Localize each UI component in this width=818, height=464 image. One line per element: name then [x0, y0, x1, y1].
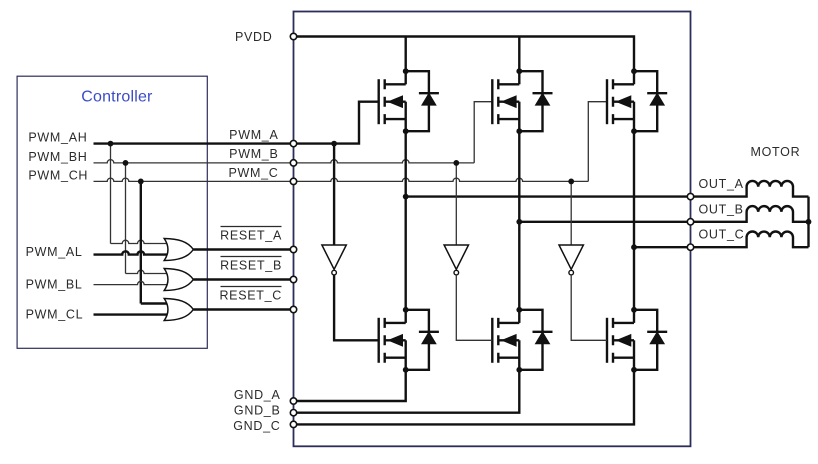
terminal OUT_A: [687, 193, 693, 199]
terminal PWM_A: [290, 140, 296, 146]
junction PWM_B node: [453, 160, 459, 166]
label PWM_A: [229, 128, 278, 142]
svg-text:OUT_B: OUT_B: [699, 202, 744, 216]
wire PWM_AH to PWM_A and gate riser Q1: [94, 102, 379, 144]
svg-text:RESET_A: RESET_A: [220, 229, 282, 243]
nmos Q1 high-side A with body diode: [379, 71, 439, 131]
wire motor star point: [807, 197, 809, 248]
svg-text:OUT_A: OUT_A: [699, 177, 744, 191]
terminal GND_B: [290, 410, 296, 416]
junction Q4 drain: [403, 307, 409, 313]
junction Q6 source: [631, 367, 637, 373]
label PWM_AH: [28, 131, 87, 145]
label GND_A: [234, 388, 281, 402]
junction Q1 drain: [403, 68, 409, 74]
svg-text:GND_C: GND_C: [233, 419, 280, 433]
label OUT_C: [699, 228, 745, 242]
terminal GND_C: [290, 421, 296, 427]
wire PWM_CH to PWM_C and gate riser Q3: [94, 102, 608, 182]
wire PWM_BH to PWM_B and gate riser Q2: [94, 102, 493, 163]
junction Q3 source: [631, 128, 637, 134]
driver IC box: [294, 12, 691, 447]
junction Q5 drain: [516, 307, 522, 313]
junction Q3 drain: [631, 68, 637, 74]
label Controller: [81, 89, 153, 106]
junction PWM_A node: [331, 141, 337, 147]
junction Q2 source: [516, 128, 522, 134]
junction OUT_A node: [403, 194, 409, 200]
terminal OUT_B: [687, 219, 693, 225]
svg-text:PWM_BH: PWM_BH: [28, 150, 87, 164]
wire GND_A to Q4 source: [294, 370, 406, 401]
wire PWM_BL to OR2 bottom input: [94, 281, 169, 284]
terminal PVDD: [290, 33, 296, 39]
label PVDD: [235, 30, 273, 44]
junction PWM_AH tap: [108, 141, 114, 147]
label PWM_BL: [26, 278, 83, 292]
junction motor star point: [806, 219, 812, 225]
inverter B: [444, 245, 468, 275]
svg-text:GND_A: GND_A: [234, 388, 281, 402]
svg-text:PWM_BL: PWM_BL: [26, 278, 83, 292]
svg-text:PWM_C: PWM_C: [228, 166, 278, 180]
terminal GND_A: [290, 398, 296, 404]
nmos Q6 low-side C with body diode: [607, 310, 667, 370]
label GND_B: [234, 403, 281, 417]
svg-text:PWM_CL: PWM_CL: [26, 308, 84, 322]
svg-text:PWM_B: PWM_B: [229, 147, 278, 161]
label PWM_C: [228, 166, 278, 180]
junction PWM_CH tap: [138, 179, 144, 185]
label RESET_B with overline: [220, 257, 282, 273]
junction Q2 drain: [516, 68, 522, 74]
motor winding C: [691, 231, 809, 247]
terminal RESET_B: [290, 276, 296, 282]
wire PWM_CH tap down to OR3 top input: [141, 181, 169, 303]
or-gate B: [164, 269, 193, 291]
wire OR3 output to RESET_C terminal: [193, 308, 293, 310]
label PWM_B: [229, 147, 278, 161]
svg-text:PWM_CH: PWM_CH: [28, 168, 88, 182]
label PWM_CL: [26, 308, 84, 322]
wire inverter B input from PWM_B: [455, 163, 457, 245]
svg-text:RESET_C: RESET_C: [219, 289, 282, 303]
wire OUT_C line: [634, 246, 691, 248]
svg-text:PWM_AH: PWM_AH: [28, 131, 87, 145]
junction Q6 drain: [631, 307, 637, 313]
junction Q4 source: [403, 367, 409, 373]
wire PVDD drop to Q1 drain: [405, 37, 407, 72]
label PWM_BH: [28, 150, 87, 164]
label MOTOR: [751, 145, 801, 159]
wire inverter B output to Q5 gate: [456, 275, 492, 340]
terminal RESET_A: [290, 246, 296, 252]
wire PWM_AH tap down to OR1 top input: [111, 144, 169, 244]
or-gate A: [164, 239, 193, 261]
wire inverter A output to Q4 gate: [334, 275, 379, 340]
junction OUT_C node: [631, 244, 637, 250]
inverter A: [322, 245, 346, 275]
wire PVDD drop to Q2 drain: [518, 37, 520, 72]
or-gate C: [164, 299, 193, 321]
nmos Q5 low-side B with body diode: [492, 310, 552, 370]
junction Q1 source: [403, 128, 409, 134]
nmos Q2 high-side B with body diode: [492, 71, 552, 131]
wire inverter C output to Q6 gate: [571, 275, 607, 340]
motor winding A: [691, 181, 809, 197]
nmos Q3 high-side C with body diode: [607, 71, 667, 131]
svg-text:PVDD: PVDD: [235, 30, 273, 44]
svg-text:GND_B: GND_B: [234, 403, 281, 417]
wire OR1 output to RESET_A terminal: [193, 248, 293, 250]
wire inverter A input from PWM_A: [333, 144, 335, 245]
label RESET_C with overline: [219, 287, 282, 303]
svg-text:OUT_C: OUT_C: [699, 228, 745, 242]
svg-text:PWM_AL: PWM_AL: [26, 245, 83, 259]
svg-text:RESET_B: RESET_B: [220, 259, 282, 273]
wire OUT_B line: [519, 221, 690, 223]
wire PWM_CL to OR3 bottom input: [94, 313, 169, 315]
label OUT_B: [699, 202, 744, 216]
svg-text:PWM_A: PWM_A: [229, 128, 278, 142]
label PWM_AL: [26, 245, 83, 259]
wire GND_B to Q5 source: [294, 370, 520, 413]
label RESET_A with overline: [220, 227, 282, 243]
label OUT_A: [699, 177, 744, 191]
terminal RESET_C: [290, 306, 296, 312]
junction OUT_B node: [516, 219, 522, 225]
nmos Q4 low-side A with body diode: [379, 310, 439, 370]
wire PVDD rail: [294, 37, 635, 72]
inverter C: [559, 245, 583, 275]
label GND_C: [233, 419, 280, 433]
junction PWM_C node: [568, 179, 574, 185]
wire phase A: Q1 source to Q4 drain: [405, 131, 407, 310]
motor winding B: [691, 206, 809, 222]
wire inverter C input from PWM_C: [570, 181, 572, 245]
svg-text:MOTOR: MOTOR: [751, 145, 801, 159]
svg-text:Controller: Controller: [81, 89, 153, 106]
wire OR2 output to RESET_B terminal: [193, 278, 293, 280]
terminal OUT_C: [687, 244, 693, 250]
wire phase B: Q2 source to Q5 drain: [518, 131, 520, 310]
junction Q5 source: [516, 367, 522, 373]
terminal PWM_B: [290, 160, 296, 166]
wire GND_C to Q6 source: [294, 370, 635, 425]
terminal PWM_C: [290, 178, 296, 184]
wire PWM_BH tap down to OR2 top input: [126, 163, 169, 274]
junction PWM_BH tap: [123, 160, 129, 166]
wire OUT_A line: [406, 195, 691, 197]
wire PWM_AL to OR1 bottom input: [94, 251, 169, 254]
wire phase C: Q3 source to Q6 drain: [633, 131, 635, 310]
label PWM_CH: [28, 168, 88, 182]
controller box: [17, 76, 207, 348]
